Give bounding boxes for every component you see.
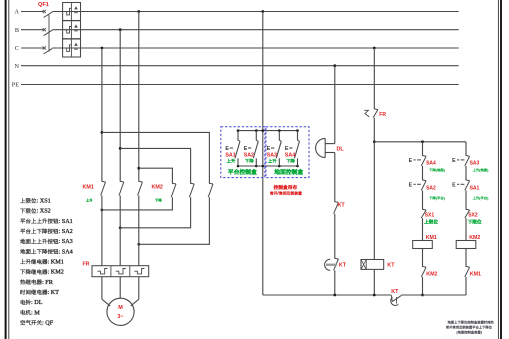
node bottom bus KT — [373, 294, 376, 297]
wire KT coil to bottom bus — [373, 269, 375, 295]
svg-text:): ) — [444, 168, 446, 172]
limit switch SX2 — [466, 208, 470, 211]
svg-text:SA2: SA2 — [426, 185, 436, 191]
node tap A phase — [137, 10, 140, 13]
node button bus junction — [237, 129, 240, 132]
node tap C phase — [101, 47, 104, 50]
pushbutton SA2 contact (rung) — [422, 179, 426, 182]
node bottom bus DL — [333, 294, 336, 297]
contactor KM2 main contact pole 3 — [209, 182, 213, 185]
label green down under KM2 — [155, 199, 162, 202]
svg-text:: SA1: : SA1 — [59, 218, 73, 225]
wire B drop to KM1 pole 2 — [119, 30, 121, 182]
note control box red line 2 — [270, 191, 302, 196]
wire KT contact to delayed contact — [334, 214, 336, 259]
wire N rail — [21, 65, 459, 67]
label green up under KM1 — [86, 199, 93, 202]
circuit breaker QF1 pole A trip unit — [63, 3, 81, 21]
contactor coil KM2 — [456, 241, 476, 249]
svg-text:: KM2: : KM2 — [48, 269, 64, 276]
node crossover tap pole3 — [137, 243, 140, 246]
wire C drop to FR contact — [373, 48, 375, 109]
frame right border — [497, 0, 499, 339]
wire bottom bus right — [401, 294, 466, 296]
svg-text:: SA3: : SA3 — [59, 238, 73, 245]
node tap N — [333, 64, 336, 67]
label green SA4 down(ground) — [429, 168, 445, 172]
wire phase C rail — [21, 47, 43, 49]
wire SX2 to KM2 coil — [465, 218, 467, 240]
label green SX1 upper limit — [424, 220, 437, 224]
svg-text:SX2: SX2 — [468, 213, 478, 219]
node crossover tap pole1 — [101, 209, 104, 212]
wire motor lead 3 to FR — [138, 244, 140, 265]
svg-text:DL: DL — [337, 146, 345, 152]
wire A drop control column — [262, 12, 264, 296]
bell DL — [316, 138, 335, 157]
svg-text:: KT: : KT — [48, 289, 60, 296]
circuit breaker QF1 pole C trip unit — [63, 39, 81, 57]
wire KM1 pole2 to KM2 pole2 bottom — [119, 196, 121, 228]
svg-text:SA4: SA4 — [426, 160, 436, 166]
svg-text:: M: : M — [31, 309, 40, 316]
wire A drop to KM1 pole 3 — [138, 12, 140, 182]
wire motor lead 2 to FR — [119, 228, 121, 266]
svg-text:SA3: SA3 — [267, 153, 277, 159]
pushbutton SA1 — [230, 131, 240, 166]
svg-text:SA4: SA4 — [285, 153, 295, 159]
svg-text:): ) — [487, 168, 489, 172]
svg-text:3~: 3~ — [117, 314, 123, 320]
svg-text:QF1: QF1 — [38, 2, 49, 8]
node button bus junction — [262, 129, 265, 132]
wire bottom bus left — [263, 294, 391, 296]
frame left border — [5, 0, 7, 339]
contactor KM2 main contact pole 2 — [190, 182, 194, 185]
label green SA2 down(platform) — [429, 196, 445, 200]
wire motor lead 1 to FR — [101, 210, 103, 266]
svg-text:KM2: KM2 — [152, 185, 163, 191]
svg-text:E: E — [452, 182, 456, 188]
wire KM1 pole3 to KM2 pole3 bottom — [138, 196, 140, 245]
wire rung1 drop — [422, 142, 424, 156]
svg-text:): ) — [444, 196, 446, 200]
svg-text:C: C — [15, 45, 19, 52]
svg-text:E: E — [285, 146, 289, 152]
ground control box (dashed) — [266, 127, 309, 178]
limit switch SX1 — [422, 208, 426, 211]
svg-text:KM1: KM1 — [83, 185, 94, 191]
contactor coil KM1 — [413, 241, 433, 249]
svg-text:E: E — [244, 146, 248, 152]
svg-text:A: A — [15, 9, 20, 16]
wire SX1 to KM1 coil — [422, 218, 424, 240]
svg-text:: QF: : QF — [42, 320, 54, 327]
wire KM2 coil to KM1 interlock — [465, 249, 467, 267]
note bottom right tiny text — [448, 321, 494, 324]
contactor KM1 main contact pole 1 — [102, 180, 106, 183]
node button bus junction — [296, 129, 299, 132]
node button bus junction — [278, 129, 281, 132]
relay contact KT (instantaneous NO) — [335, 201, 339, 204]
svg-text:PE: PE — [12, 82, 19, 89]
node crossover tap pole2 — [119, 226, 122, 229]
thermal relay FR NC contact — [364, 109, 378, 118]
pushbutton SA1 contact (rung) — [466, 179, 470, 182]
svg-text:SA1: SA1 — [225, 153, 235, 159]
wire KM1 interlock to bottom bus — [465, 277, 467, 295]
label green SA4 — [286, 159, 294, 163]
svg-text:B: B — [15, 27, 19, 34]
svg-text:): ) — [487, 196, 489, 200]
pushbutton SA3 — [271, 131, 281, 166]
relay contact KT (time delayed) — [325, 258, 339, 270]
svg-text:FR: FR — [83, 262, 90, 268]
label green SA3 — [268, 159, 276, 163]
svg-text:): ) — [481, 330, 482, 334]
wire SA2 to SX1 — [422, 191, 424, 210]
circuit breaker QF1 pole B switch — [43, 28, 53, 36]
svg-text:: SA2: : SA2 — [59, 228, 73, 235]
svg-text:: KM1: : KM1 — [48, 259, 64, 266]
svg-text:SA1: SA1 — [470, 185, 480, 191]
svg-text:: XS2: : XS2 — [37, 208, 51, 215]
svg-text:: FR: : FR — [42, 279, 54, 286]
contactor KM1 main contact pole 2 — [120, 180, 124, 183]
svg-text:E: E — [452, 158, 456, 164]
thermal relay FR heater elements — [92, 266, 149, 277]
pushbutton SA2 — [248, 131, 258, 166]
svg-text:: SA4: : SA4 — [59, 248, 73, 255]
note control box red line 1 — [274, 185, 297, 189]
svg-text:N: N — [15, 63, 20, 70]
label platform control box — [228, 169, 256, 174]
time relay KT coil — [361, 260, 384, 270]
legend text block — [20, 198, 51, 205]
svg-text:KT: KT — [387, 262, 395, 268]
wire delayed contact to bottom bus — [334, 270, 336, 295]
circuit breaker QF1 pole B trip unit — [63, 21, 81, 39]
wire jumper A to KM2 pole 1 — [139, 168, 173, 183]
pushbutton SA4 contact (rung) — [422, 155, 426, 158]
label ground control box — [274, 169, 303, 174]
wire phase B rail — [21, 29, 43, 31]
node jumper tap on B drop — [119, 147, 122, 150]
wire rung top bus — [374, 141, 466, 143]
label green SA2 — [245, 159, 253, 163]
label green SA1 up(platform) — [473, 196, 489, 200]
wire KM2 interlock to bottom bus — [422, 277, 424, 295]
wire N drop to bell — [334, 66, 336, 144]
svg-text:: XS1: : XS1 — [37, 198, 51, 205]
node tap B phase — [119, 28, 122, 31]
wire button top bus — [238, 130, 298, 132]
pushbutton SA4 — [289, 131, 299, 166]
svg-text:E: E — [267, 146, 271, 152]
svg-text:FR: FR — [379, 112, 386, 118]
label green SA1 — [227, 159, 235, 163]
relay contact KT delayed (bottom bus) — [391, 295, 402, 305]
interlock contact KM2 — [422, 265, 426, 268]
wire SA4 to SA2 — [422, 166, 424, 180]
node jumper tap on A drop — [137, 167, 140, 170]
svg-text:KM1: KM1 — [470, 272, 481, 278]
wire FR contact to rung bus — [373, 118, 375, 142]
pushbutton SA3 contact (rung) — [466, 155, 470, 158]
label green SA3 up(ground) — [473, 168, 489, 172]
motor M — [107, 298, 134, 325]
node rung bus left — [373, 140, 376, 143]
wire bell to KT contact — [334, 153, 336, 203]
contactor KM1 main contact pole 3 — [139, 180, 143, 183]
wire KT coil feed — [373, 142, 375, 260]
wire KM1 pole1 to KM2 pole1 bottom — [101, 196, 103, 210]
wire C drop to KM1 pole 1 — [101, 48, 103, 182]
contactor KM2 main contact pole 1 — [172, 182, 176, 185]
svg-text:SA2: SA2 — [244, 153, 254, 159]
label green SX2 lower limit — [468, 220, 481, 224]
wire FR to motor leads — [101, 277, 103, 300]
circuit breaker QF1 linkage — [48, 15, 50, 52]
svg-text:E: E — [225, 146, 229, 152]
node rung1 top — [421, 140, 424, 143]
circuit breaker QF1 pole C switch — [43, 46, 53, 54]
wire KM1 coil to KM2 interlock — [422, 249, 424, 267]
svg-text:: DL: : DL — [31, 299, 43, 306]
svg-text:SA3: SA3 — [470, 160, 480, 166]
wire PE rail — [21, 84, 459, 86]
svg-text:KT: KT — [391, 289, 399, 295]
svg-text:E: E — [409, 182, 413, 188]
svg-text:/: / — [278, 191, 280, 196]
node jumper tap on C drop — [101, 131, 104, 134]
node button bus junction — [255, 129, 258, 132]
svg-text:M: M — [118, 305, 123, 311]
platform control box (dashed) — [221, 127, 265, 178]
svg-text:E: E — [409, 158, 413, 164]
circuit breaker QF1 pole A switch — [43, 10, 53, 18]
svg-text:SX1: SX1 — [425, 213, 435, 219]
svg-text:KT: KT — [338, 203, 346, 209]
wire phase A rail — [21, 11, 43, 13]
svg-text:KM2: KM2 — [426, 272, 437, 278]
wire SA1 to SX2 — [465, 191, 467, 210]
wire button bottom bus — [238, 165, 298, 167]
wire SA3 to SA1 — [465, 166, 467, 180]
interlock contact KM1 — [466, 265, 470, 268]
wire jumper B to KM2 pole 2 — [120, 148, 190, 183]
node rung1 bottom — [421, 294, 424, 297]
node tap C control — [373, 47, 376, 50]
wire rung2 drop — [465, 142, 467, 156]
node tap A control — [261, 10, 264, 13]
svg-text:KT: KT — [339, 262, 347, 268]
wire jumper C to KM2 pole 3 — [102, 132, 209, 183]
